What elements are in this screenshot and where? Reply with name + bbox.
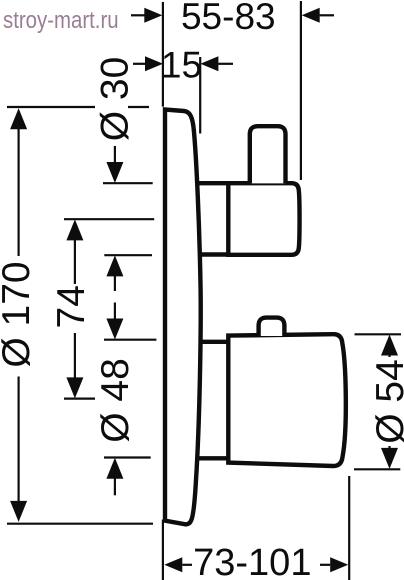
dimension D170: up arrow — [10, 108, 27, 129]
dimension 15: extension line right (plate front) — [199, 57, 201, 134]
dimension D30: lower extension line — [104, 254, 152, 256]
bottom cartridge stem bottom edge — [199, 456, 228, 460]
dimension 15: left arrow — [133, 63, 146, 65]
dimension 73-101: right arrow — [320, 564, 330, 566]
svg-text:73-101: 73-101 — [193, 542, 311, 580]
bottom handle nub — [259, 318, 285, 336]
dimension D48: lower extension line — [104, 456, 151, 458]
top cartridge stem bottom edge — [199, 252, 229, 256]
svg-text:Ø 30: Ø 30 — [94, 57, 137, 142]
dimension D48: down arrow (above upper line) — [114, 303, 116, 321]
dimension D170: bottom extension line — [7, 523, 153, 525]
dimension D30: up arrow (below lower line) — [114, 276, 116, 291]
watermark stroy-mart.ru — [3, 7, 119, 35]
dimension 55-83: right arrow — [320, 14, 334, 16]
dimension D170: dimension line — [18, 127, 20, 502]
dimension 73-101: extension line right (handle front) — [348, 476, 350, 580]
dimension 73-101: left arrow — [182, 564, 192, 566]
dimension D54: dimension line — [388, 353, 390, 451]
svg-text:15: 15 — [161, 44, 202, 85]
dimension D54: top extension line — [355, 333, 402, 335]
top cartridge stem top edge — [198, 181, 229, 185]
dimension 74: up arrow — [66, 219, 83, 240]
dimension 74: dimension line — [74, 239, 76, 378]
wall plate (escutcheon, side view) — [165, 110, 201, 525]
dimension D30: down arrow (above upper line) — [114, 146, 116, 164]
top knob / lever — [250, 126, 286, 183]
top handle body (diverter) — [228, 183, 299, 255]
dimension D48: upper extension line — [104, 339, 156, 341]
dimension 55-83: left arrow — [131, 14, 145, 16]
dimension D170: top extension line — [7, 106, 149, 108]
dimension 74: bottom extension line (bottom handle axis) — [64, 398, 95, 400]
dimension 55-83: extension line right (handle front) — [300, 1, 302, 180]
svg-text:Ø 48: Ø 48 — [94, 358, 137, 443]
dimension D170: down arrow — [10, 501, 27, 522]
dimension 74: top extension line (top handle axis) — [64, 218, 154, 220]
dimension D54: bottom extension line — [354, 468, 400, 470]
svg-text:74: 74 — [50, 285, 93, 328]
bottom cartridge stem top edge — [199, 340, 228, 344]
dimension D54: up arrow — [381, 335, 398, 356]
dimension D54: down arrow — [381, 448, 398, 469]
bottom handle body (thermostat) — [228, 334, 346, 466]
dimension 55-83: extension line left (plate back) — [162, 2, 164, 107]
svg-text:Ø 54: Ø 54 — [369, 359, 404, 444]
svg-text:55-83: 55-83 — [181, 0, 276, 37]
svg-text:Ø 170: Ø 170 — [0, 261, 38, 367]
dimension 15: right arrow — [218, 63, 233, 65]
dimension D48: up arrow (below lower line) — [114, 479, 116, 496]
dimension D30: upper extension line — [103, 182, 153, 184]
dimension 74: down arrow — [66, 377, 83, 398]
dimension 73-101: extension line left (plate back) — [162, 520, 164, 580]
